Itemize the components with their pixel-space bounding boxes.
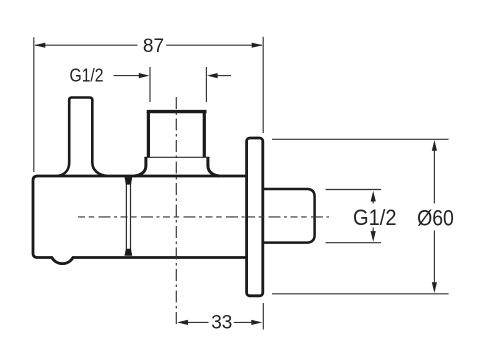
svg-text:Ø60: Ø60 <box>417 205 454 230</box>
top port right side <box>203 112 206 157</box>
thread relief thin line <box>144 156 209 158</box>
dim G1/2 top extension right <box>205 67 207 102</box>
dim 33 extension right <box>262 303 264 330</box>
dim 87 arrow left <box>34 43 45 48</box>
dim 87 line <box>35 44 262 46</box>
dim D60 down arrow <box>432 282 437 293</box>
wall flange <box>247 138 263 296</box>
joint double line <box>126 179 130 255</box>
dim 33 right arrow <box>251 320 262 325</box>
dim G1/2 right extension bottom <box>326 242 382 244</box>
left stem (valve bonnet) <box>57 98 107 177</box>
dim D60 up arrow <box>432 140 437 151</box>
outlet spigot <box>264 189 315 243</box>
joint seam bottom blob <box>125 249 133 256</box>
svg-text:G1/2: G1/2 <box>70 64 104 85</box>
dim G1/2 right down arrow <box>372 228 374 238</box>
dim 87 arrow right <box>252 43 263 48</box>
top port top bar <box>147 110 207 113</box>
vertical centerline <box>175 97 177 328</box>
dim G1/2 right up arrow <box>372 195 374 204</box>
dim G1/2 top right arrow <box>207 73 218 78</box>
dim G1/2 top right tail <box>218 75 232 77</box>
dim D60 extension top <box>272 138 449 140</box>
svg-text:87: 87 <box>143 36 164 57</box>
dim G1/2 top extension left <box>149 67 151 102</box>
top port left side <box>147 112 150 157</box>
dim D60 line <box>433 150 435 283</box>
dim D60 extension bottom <box>272 293 449 295</box>
port lower-left flare <box>135 157 146 176</box>
joint seam top blob <box>125 177 133 184</box>
dim G1/2 top left tail <box>114 75 140 77</box>
valve body outline <box>33 176 247 264</box>
dim G1/2 right extension top <box>326 189 382 191</box>
horizontal centerline <box>78 216 329 218</box>
svg-text:G1/2: G1/2 <box>353 205 397 230</box>
dim 33 right line <box>234 321 252 323</box>
dim G1/2 top left arrow <box>139 73 150 78</box>
dim 33 left arrow <box>177 320 188 325</box>
svg-text:33: 33 <box>211 313 232 334</box>
dim 87 extension line left <box>33 37 35 172</box>
dim 33 left line <box>188 321 209 323</box>
dim 87 extension line right <box>262 37 264 133</box>
port lower-right flare <box>208 157 219 176</box>
